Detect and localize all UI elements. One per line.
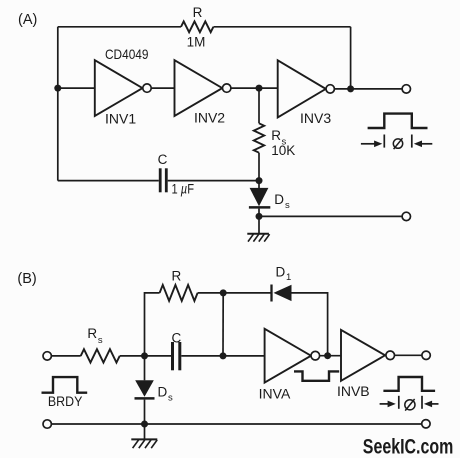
svg-text:CD4049: CD4049 (105, 46, 149, 62)
wire INV1 to INV2 (151, 87, 174, 89)
svg-text:10K: 10K (271, 143, 295, 158)
node ground junction B (141, 421, 148, 428)
wire top feedback horizontal left (58, 26, 181, 28)
svg-text:R: R (193, 5, 203, 20)
resistor R B (160, 285, 198, 301)
wire junction up to R (145, 293, 160, 356)
ground B (131, 439, 157, 448)
wire bottom rail B (51, 423, 421, 425)
resistor R (181, 21, 213, 32)
svg-text:INVA: INVA (259, 385, 291, 401)
wire feedback vertical right (350, 27, 352, 89)
wire node to lower-right terminal (259, 215, 402, 217)
wire R to diode D1 (198, 292, 272, 294)
terminal lower left B (43, 420, 51, 428)
resistor Rs (254, 123, 264, 152)
waveform inverted pulse between INVA and INVB (294, 371, 339, 380)
svg-text:INV2: INV2 (194, 110, 225, 126)
diode Ds B (135, 356, 155, 424)
wire cap junction up (222, 293, 224, 356)
wire INV2 to INV3 (231, 87, 278, 89)
terminal lower right A (402, 212, 410, 220)
symbol phase B (405, 399, 415, 411)
svg-text:INV1: INV1 (105, 111, 136, 127)
diode Ds (249, 181, 270, 217)
inverter INV2 (175, 60, 231, 116)
wire top feedback horizontal right (214, 26, 351, 28)
wire D1 to right vertical (292, 293, 328, 356)
dimension arrow right A (414, 141, 433, 148)
node cap right junction (220, 352, 227, 359)
svg-text:R: R (271, 128, 281, 143)
svg-text:BRDY: BRDY (48, 394, 83, 409)
label Rs B (87, 326, 103, 346)
wire INVA output to INVB (320, 355, 341, 357)
label Ds (274, 192, 290, 211)
node INVA output junction (324, 352, 331, 359)
dimension tick right B (421, 396, 423, 409)
wire to ground B (144, 424, 146, 439)
wire Rs to junction (120, 355, 171, 357)
svg-text:(B): (B) (17, 271, 36, 287)
inverter INVB (341, 330, 395, 381)
ground A (247, 234, 269, 242)
svg-text:C: C (158, 152, 168, 167)
diode D1 (272, 285, 292, 302)
wire INV3 output to terminal (334, 88, 402, 90)
waveform BRDY pulse (42, 377, 88, 393)
dimension arrow left A (361, 141, 382, 148)
node below diode (256, 213, 263, 220)
label Rs (271, 128, 286, 148)
terminal upper right A (402, 85, 410, 93)
wire left vertical (57, 27, 59, 181)
inverter INV1 (95, 60, 151, 116)
wire node to ground (258, 216, 260, 233)
svg-text:INV3: INV3 (300, 110, 331, 126)
waveform output pulse B (383, 377, 435, 391)
node Rs/C/diode junction (141, 352, 148, 359)
svg-text:R: R (87, 326, 97, 341)
capacitor C (159, 168, 168, 192)
node INV1 input junction (54, 85, 61, 92)
wire bottom horizontal to capacitor (58, 180, 159, 182)
svg-text:(A): (A) (18, 12, 37, 28)
svg-text:SeekIC.com: SeekIC.com (363, 434, 454, 458)
svg-text:D: D (158, 384, 168, 399)
node cap / Rs / diode junction (256, 177, 263, 184)
wire capacitor to INVA (181, 355, 264, 357)
svg-text:INVB: INVB (337, 383, 370, 399)
svg-text:D: D (276, 265, 286, 280)
terminal input B (43, 352, 51, 360)
node Rs top junction (256, 85, 263, 92)
dimension tick left A (383, 135, 385, 148)
svg-text:s: s (168, 392, 173, 403)
svg-text:1 µF: 1 µF (172, 181, 195, 196)
terminal lower right B (422, 420, 430, 428)
dimension arrow left B (380, 401, 396, 408)
dimension arrow right B (424, 401, 439, 408)
symbol phase A (393, 138, 402, 149)
svg-text:1: 1 (286, 272, 291, 283)
resistor Rs B (81, 349, 120, 362)
svg-text:s: s (98, 335, 103, 346)
wire INV1 input (58, 87, 95, 89)
inverter INVA (265, 329, 320, 383)
svg-text:R: R (172, 269, 182, 284)
svg-text:1M: 1M (187, 35, 206, 50)
wire Rs to cap node (258, 153, 260, 181)
terminal output B (422, 351, 430, 359)
waveform output pulse A (368, 114, 428, 128)
wire input to Rs (51, 355, 80, 357)
node feedback junction (347, 85, 354, 92)
svg-text:s: s (285, 200, 290, 211)
wire node to Rs (258, 88, 260, 123)
dimension tick left B (398, 396, 400, 409)
wire capacitor to diode node (168, 180, 259, 182)
svg-text:D: D (274, 192, 284, 207)
wire INVB output to terminal (395, 354, 422, 356)
label Ds B (158, 384, 174, 403)
label D1 (276, 265, 292, 284)
capacitor C B (171, 342, 181, 370)
inverter INV3 (278, 60, 335, 117)
node top junction B (220, 289, 227, 296)
dimension tick right A (411, 135, 413, 148)
